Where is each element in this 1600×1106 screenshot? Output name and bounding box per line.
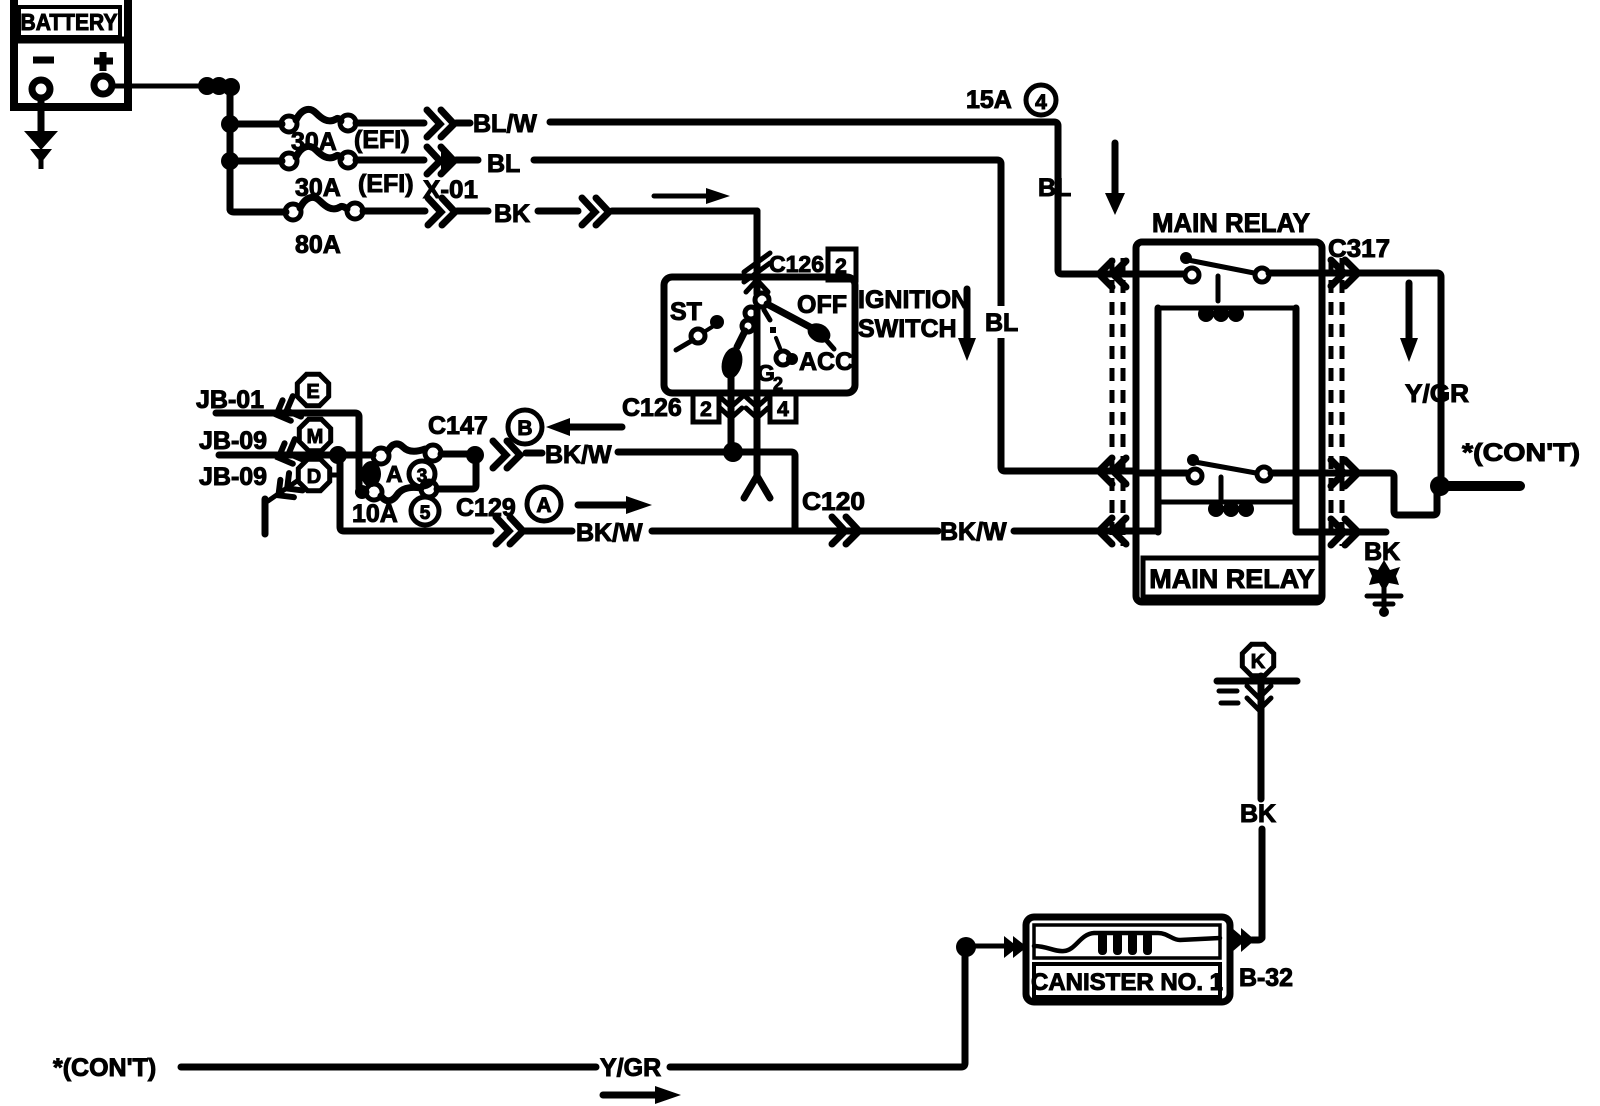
svg-text:JB-09: JB-09 [199, 463, 267, 491]
svg-text:4: 4 [1035, 91, 1047, 114]
svg-text:BK: BK [1364, 538, 1400, 566]
svg-text:A: A [536, 494, 551, 517]
svg-text:(EFI): (EFI) [358, 170, 414, 198]
svg-text:BK: BK [1240, 800, 1276, 828]
svg-text:5: 5 [420, 503, 431, 524]
svg-text:2: 2 [700, 398, 712, 421]
svg-text:BK/W: BK/W [545, 441, 612, 469]
svg-text:80A: 80A [295, 231, 341, 259]
svg-text:ST: ST [670, 298, 702, 326]
svg-text:BK: BK [494, 200, 530, 228]
svg-text:BK/W: BK/W [576, 519, 643, 547]
svg-text:B: B [517, 417, 532, 440]
svg-text:4: 4 [777, 398, 789, 421]
svg-text:B-32: B-32 [1239, 964, 1293, 992]
svg-text:Y/GR: Y/GR [600, 1054, 661, 1082]
svg-text:C317: C317 [1328, 235, 1390, 263]
svg-text:C120: C120 [802, 488, 865, 516]
svg-text:MAIN RELAY: MAIN RELAY [1149, 564, 1315, 594]
svg-text:15A: 15A [966, 86, 1012, 114]
svg-text:M: M [307, 426, 324, 448]
svg-text:OFF: OFF [797, 291, 847, 319]
svg-text:BL: BL [985, 309, 1018, 337]
svg-text:A: A [386, 461, 403, 487]
svg-text:BATTERY: BATTERY [21, 9, 118, 35]
svg-text:C126: C126 [769, 251, 824, 277]
svg-text:Y/GR: Y/GR [1405, 380, 1469, 408]
svg-text:IGNITION: IGNITION [858, 286, 969, 314]
svg-text:JB-09: JB-09 [199, 427, 267, 455]
svg-text:C126: C126 [622, 394, 682, 422]
svg-text:ACC: ACC [799, 348, 853, 376]
svg-text:SWITCH: SWITCH [858, 315, 957, 343]
svg-text:(EFI): (EFI) [354, 126, 410, 154]
svg-text:C147: C147 [428, 412, 488, 440]
svg-text:K: K [1251, 651, 1266, 673]
svg-text:*(CON'T): *(CON'T) [53, 1054, 156, 1082]
svg-text:BK/W: BK/W [940, 518, 1007, 546]
svg-text:CANISTER NO. 1: CANISTER NO. 1 [1031, 969, 1223, 996]
svg-text:10A: 10A [352, 500, 398, 528]
svg-text:BL: BL [487, 150, 520, 178]
svg-text:BL/W: BL/W [473, 110, 537, 138]
svg-text:MAIN RELAY: MAIN RELAY [1152, 208, 1310, 238]
svg-text:BL: BL [1038, 174, 1071, 202]
svg-text:E: E [306, 381, 319, 403]
svg-text:*(CON'T): *(CON'T) [1462, 439, 1580, 467]
svg-text:D: D [307, 466, 321, 488]
